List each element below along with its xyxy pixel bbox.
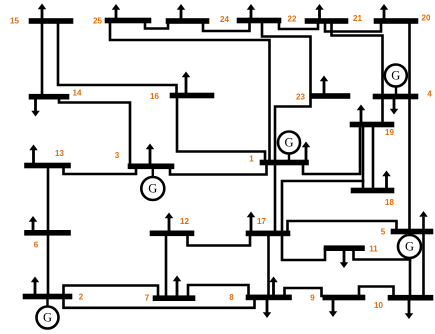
load arrow up bus 1 (305, 146, 308, 162)
wire bus5 arrow shaft to bus10 (422, 218, 425, 296)
bus 21 (305, 19, 348, 24)
svg-text:20: 20 (422, 14, 431, 23)
svg-text:16: 16 (150, 92, 159, 101)
wire bus12-bus17 (188, 235, 251, 246)
wire bus19-bus18 right (372, 126, 375, 189)
svg-text:G: G (284, 136, 293, 150)
load arrow down bus 9 (332, 298, 335, 313)
wire bus16-bus1 (177, 97, 265, 161)
svg-text:G: G (43, 311, 52, 325)
wire bus1-bus17 (274, 164, 277, 232)
load arrow up bus 20 (383, 9, 386, 21)
wire bus17-bus11 (282, 235, 325, 260)
bus 20 (374, 19, 418, 24)
load arrow down bus 11 (343, 248, 346, 263)
wire bus13-bus3 (64, 165, 137, 174)
bus 15 (29, 19, 73, 24)
wire bus17-bus18 (282, 181, 363, 232)
wire bus17-bus8 (267, 235, 270, 296)
bus 4 (373, 94, 418, 99)
svg-text:5: 5 (381, 228, 386, 237)
wire bus19-bus18 left (362, 126, 365, 189)
svg-text:4: 4 (427, 90, 432, 99)
svg-text:23: 23 (296, 93, 305, 102)
svg-text:2: 2 (79, 293, 84, 302)
wire bus21-bus19 (332, 22, 383, 123)
wire bus20-bus4-bus5 (408, 22, 411, 230)
wire bus12-bus7 (165, 234, 168, 297)
svg-text:9: 9 (310, 294, 315, 303)
wire bus21-bus20 (325, 20, 381, 32)
bus 2 (23, 294, 72, 299)
wire bus3-bus1 (170, 164, 267, 175)
load arrow up bus 22 (250, 9, 253, 21)
generator G4 (385, 65, 407, 87)
svg-text:24: 24 (220, 15, 229, 24)
svg-text:21: 21 (353, 14, 362, 23)
generator G1 (278, 132, 300, 154)
svg-text:8: 8 (229, 293, 234, 302)
load arrow up bus 5 (419, 211, 428, 217)
bus 22 (237, 18, 281, 23)
bus 17 (246, 231, 290, 236)
load arrow up bus 16 (185, 76, 188, 95)
bus 3 (128, 164, 174, 169)
load arrow up bus 12 (168, 217, 171, 232)
wire bus8-bus9 (285, 288, 322, 296)
wire G5-bus10 (409, 258, 412, 296)
bus 24 (166, 19, 209, 24)
bus 23 (310, 94, 350, 99)
svg-text:3: 3 (115, 151, 120, 160)
generator G3 (141, 177, 164, 200)
svg-text:15: 15 (10, 17, 19, 26)
svg-text:10: 10 (374, 301, 383, 310)
load arrow down bus 14 (34, 97, 37, 112)
svg-text:12: 12 (180, 217, 189, 226)
generator G4 stem (395, 86, 397, 95)
wire bus25-bus1 long line (110, 22, 270, 161)
svg-text:14: 14 (73, 89, 82, 98)
wire bus9-bus10 (359, 287, 394, 297)
bus 6 (25, 230, 71, 235)
wire bus1-bus19 (303, 126, 360, 174)
load arrow up bus 23 (323, 80, 326, 96)
load arrow up bus 7 (176, 280, 179, 298)
wire bus22-bus21 (279, 20, 318, 29)
wire bus24-bus22 (203, 19, 250, 31)
wire bus7-bus8 (188, 285, 249, 297)
wire bus14-bus3 (59, 98, 130, 165)
svg-text:G: G (148, 182, 157, 196)
bus 25 (105, 18, 151, 23)
load arrow up bus 21 (318, 9, 321, 21)
svg-text:19: 19 (385, 128, 394, 137)
load arrow up bus 15 (41, 8, 44, 21)
generator G5 (398, 235, 421, 258)
bus 10 (388, 295, 433, 300)
load arrow up bus 24 (180, 9, 183, 21)
bus 18 (351, 188, 394, 193)
load arrow up bus 3 (149, 148, 152, 166)
bus 9 (323, 295, 365, 300)
bus 11 (324, 246, 365, 251)
svg-text:22: 22 (288, 15, 297, 24)
svg-text:7: 7 (145, 294, 150, 303)
generator G3 stem (152, 168, 154, 177)
load arrow up bus 17 (250, 216, 253, 233)
wire bus15-bus16 (58, 22, 177, 94)
load arrow up bus 19 (360, 109, 363, 124)
bus 14 (29, 94, 69, 99)
wire bus2-bus7 (64, 286, 159, 298)
load arrow up bus 25 (115, 9, 118, 21)
load arrow down bus 10 (408, 298, 411, 315)
svg-text:18: 18 (385, 198, 394, 207)
svg-text:13: 13 (55, 149, 64, 158)
wire bus25-bus24 (145, 20, 168, 29)
svg-text:11: 11 (369, 244, 378, 253)
bus 12 (150, 231, 194, 236)
wire bus15-bus14 (41, 21, 44, 96)
load arrow up bus 6 (32, 221, 35, 234)
generator G2 stem (46, 298, 48, 307)
load arrow down bus 4 (393, 97, 396, 110)
svg-text:1: 1 (249, 155, 254, 164)
bus 19 (350, 122, 394, 127)
bus 7 (153, 296, 195, 301)
load arrow down bus 8 (266, 297, 269, 313)
load arrow up bus 2 (34, 281, 37, 296)
load arrow up bus 18 (385, 175, 388, 190)
wire bus22-bus23 (262, 22, 311, 95)
bus 8 (246, 295, 292, 300)
svg-text:25: 25 (93, 17, 102, 26)
svg-text:17: 17 (257, 217, 266, 226)
load arrow up bus 8 (272, 281, 275, 297)
svg-text:G: G (391, 69, 400, 83)
wire bus17-bus5 (288, 221, 397, 232)
wire bus23-bus1 (275, 97, 311, 161)
svg-text:G: G (405, 240, 414, 254)
wire bus2-bus8 (64, 298, 255, 308)
svg-text:6: 6 (34, 241, 39, 250)
generator G2 (37, 307, 59, 329)
generator G1 stem (288, 153, 290, 161)
wire bus11-bus10 line (354, 249, 411, 260)
bus 13 (25, 163, 71, 168)
bus 5 (391, 229, 433, 234)
bus 1 (260, 160, 309, 165)
wire bus13-bus6-bus2 (47, 167, 50, 295)
bus 16 (170, 93, 214, 98)
load arrow up bus 13 (32, 149, 35, 165)
